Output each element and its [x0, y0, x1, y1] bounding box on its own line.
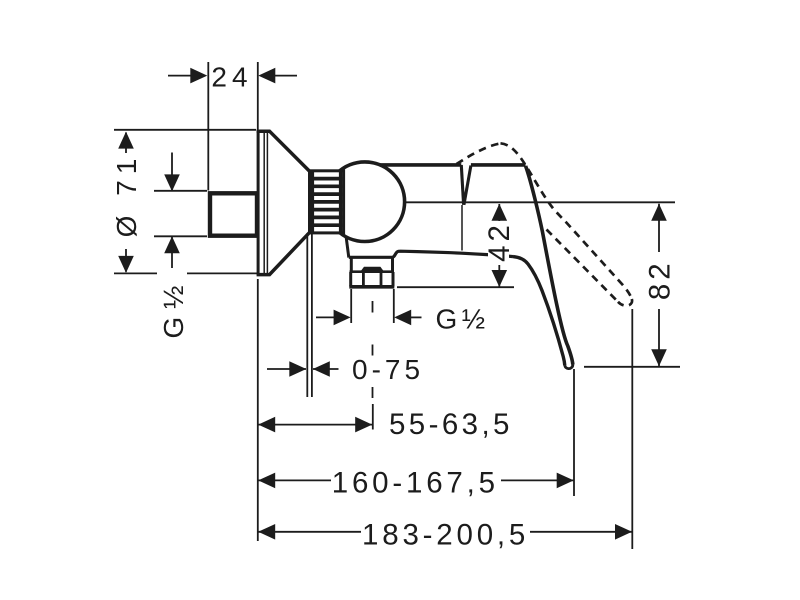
svg-text:42: 42: [483, 221, 516, 262]
dimension 183-200,5 (overall projection): [258, 519, 632, 552]
wall supply pipe nipple: [210, 193, 257, 235]
svg-text:82: 82: [644, 259, 677, 300]
knurled adjusting ring: [310, 171, 344, 233]
pipe axis reference line: [404, 201, 675, 203]
dimension 160-167,5 (wall to lever tip): [258, 467, 574, 500]
outlet hex nut G1/2: [349, 272, 394, 287]
dimension G1/2 wall connection thread: [154, 153, 207, 339]
dimension 55-63,5 (wall to outlet centre): [258, 408, 513, 441]
svg-text:24: 24: [211, 62, 252, 93]
svg-text:G ½: G ½: [158, 286, 189, 339]
lever pivot notch: [461, 165, 471, 251]
lever tip extension line: [573, 369, 575, 496]
outlet stub: [350, 258, 395, 273]
outlet centre line: [372, 301, 374, 430]
wall plane extension line: [257, 279, 259, 541]
svg-text:183-200,5: 183-200,5: [362, 519, 529, 552]
dimension 42 (axis to outlet): [397, 204, 516, 287]
dimension G1/2 outlet thread: [316, 289, 490, 335]
raised lever tip extension line: [631, 309, 633, 549]
svg-text:Ø 71: Ø 71: [111, 153, 142, 238]
valve body top edge: [380, 163, 461, 167]
body underside and spout arm: [346, 236, 513, 258]
svg-text:55-63,5: 55-63,5: [389, 408, 513, 441]
svg-text:160-167,5: 160-167,5: [332, 467, 499, 500]
dimension 82 (axis to lever end): [584, 204, 680, 367]
dimension 0-75 (mounting adjustment range): [267, 233, 424, 397]
dimension Ø71 (flange diameter): [111, 130, 258, 274]
cartridge housing sphere: [325, 162, 405, 242]
dimension 24 (pipe length): [168, 62, 297, 191]
svg-text:G½: G½: [436, 304, 490, 335]
svg-text:0-75: 0-75: [352, 354, 424, 385]
lever handle raised position (dashed): [457, 143, 633, 306]
wall flange cone: [257, 131, 310, 276]
lever handle: [471, 165, 573, 369]
